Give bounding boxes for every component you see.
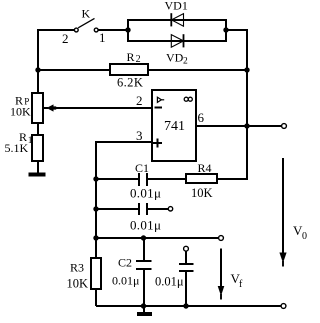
svg-text:VD: VD: [166, 51, 184, 65]
switch K: [74, 18, 98, 32]
svg-text:R3: R3: [70, 261, 84, 275]
wire R3 top lead: [95, 238, 97, 258]
svg-text:3: 3: [136, 128, 143, 143]
wire left rail top corner to switch terminal 2: [38, 30, 74, 93]
wire R3 bottom lead: [95, 289, 97, 306]
capacitor C1b 0.01u second: [139, 203, 147, 215]
wire RP to R1: [37, 123, 39, 135]
wire switch terminal 1 to diode box: [98, 29, 128, 31]
wire R2 row left: [38, 69, 110, 71]
ground (bottom center): [137, 306, 152, 316]
junction dot diode box right: [223, 27, 228, 32]
resistor R1: [32, 135, 43, 161]
svg-text:0.01μ: 0.01μ: [155, 275, 184, 289]
svg-text:C1: C1: [135, 161, 149, 175]
junction dot C2 bottom: [141, 303, 146, 308]
op-amp U1 741: [152, 90, 196, 161]
svg-text:R: R: [127, 50, 135, 64]
svg-text:10K: 10K: [191, 186, 213, 200]
capacitor C4 0.01u: [179, 251, 194, 306]
svg-text:2: 2: [62, 31, 69, 46]
svg-text:5.1K: 5.1K: [5, 141, 29, 155]
capacitor C1: [139, 173, 147, 186]
label R1: [19, 130, 33, 146]
wire R1 to ground: [37, 161, 39, 173]
junction dot right rail R2: [244, 67, 249, 72]
junction dot rail C1 row: [93, 176, 98, 181]
wire C1 to R4: [147, 178, 186, 180]
svg-text:2: 2: [136, 93, 143, 108]
terminal circle cap2 row: [168, 207, 172, 211]
svg-text:0.01μ: 0.01μ: [130, 218, 161, 233]
svg-text:10K: 10K: [10, 105, 31, 119]
arrow V0: [279, 158, 286, 267]
resistor R2: [110, 64, 148, 75]
wire diode box to right rail: [226, 29, 248, 31]
resistor R4: [186, 174, 217, 183]
arrow Vf: [218, 249, 225, 300]
svg-text:C2: C2: [118, 256, 132, 270]
wire R2 row right: [148, 69, 247, 71]
terminal circle cap4 top: [184, 246, 189, 251]
terminal circle bottom row: [219, 236, 224, 241]
wire right rail down to R4: [217, 29, 247, 179]
svg-text:2: 2: [136, 54, 141, 65]
wire cap2 row: [96, 208, 139, 210]
label RP: [15, 94, 29, 108]
svg-text:2: 2: [183, 57, 188, 67]
wire C1 row left: [96, 178, 139, 180]
svg-text:10K: 10K: [67, 277, 89, 291]
terminal circle bottom right: [281, 304, 286, 309]
diode loop rectangle: [128, 20, 226, 41]
junction dot diode box left: [125, 27, 130, 32]
wiper arrow of RP: [43, 104, 152, 111]
junction dot rail bottom row: [93, 235, 98, 240]
svg-text:741: 741: [164, 119, 185, 134]
svg-text:1: 1: [28, 136, 33, 146]
svg-text:6: 6: [198, 110, 205, 125]
svg-text:1: 1: [99, 30, 106, 45]
label V0: [293, 223, 307, 242]
wire pin 6 output: [196, 125, 281, 127]
svg-text:0.01μ: 0.01μ: [112, 274, 139, 288]
wire bottom rail: [96, 305, 281, 307]
junction dot C4 bottom: [183, 303, 188, 308]
label Vf: [231, 271, 244, 290]
resistor R3: [91, 258, 101, 289]
wire cap2 to terminal: [147, 208, 168, 210]
svg-text:R4: R4: [198, 161, 212, 175]
svg-text:6.2K: 6.2K: [117, 76, 143, 90]
wire C2 top lead: [143, 238, 145, 261]
diode VD2: [171, 34, 183, 47]
wire bottom top row: [96, 237, 219, 239]
wire pin 3 to left mid rail: [96, 142, 152, 238]
terminal circle output: [282, 124, 287, 129]
junction dot rail cap2 row: [93, 206, 98, 211]
junction dot C2 top: [141, 235, 146, 240]
svg-text:VD1: VD1: [165, 0, 188, 13]
svg-text:K: K: [82, 7, 91, 21]
ground (below R1): [29, 173, 46, 177]
label R2: [127, 50, 141, 65]
svg-text:0: 0: [302, 231, 307, 242]
junction dot left rail R2: [35, 67, 40, 72]
svg-text:0.01μ: 0.01μ: [130, 186, 161, 201]
wire C2 bottom lead: [143, 269, 145, 306]
label VD2: [166, 51, 188, 67]
potentiometer RP: [32, 93, 43, 123]
junction dot pin6 right rail: [244, 123, 249, 128]
capacitor C2: [136, 261, 152, 269]
diode VD1: [171, 13, 183, 26]
